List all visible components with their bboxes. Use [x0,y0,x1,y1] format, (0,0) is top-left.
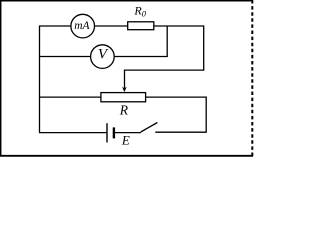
wire: voltmeter to tap [114,56,168,58]
battery long plate [106,123,108,142]
wire: R0 to top-right corner [154,25,204,27]
wire: ammeter to R0 [94,25,127,27]
svg-text:mA: mA [74,20,90,32]
rheostat R body [101,93,146,102]
rheostat slider arrowhead [122,87,127,92]
wire: voltmeter tap vertical (node between R0 and wire) [166,26,168,57]
svg-text:R: R [119,103,129,118]
wire: left bus to rheostat R [39,96,101,98]
wire: left bus to ammeter [39,25,71,27]
wire: rheostat R to right vertical lower [146,96,207,98]
wire: right vertical lower [205,97,207,133]
ammeter mA [71,14,95,38]
wire: slider arrow shaft [124,70,126,89]
wire: right vertical upper [203,25,205,70]
svg-text:E: E [121,133,130,148]
wire: switch to right vertical [155,131,207,133]
frame bottom border [0,155,253,157]
resistor R0 body [128,22,154,30]
battery short plate [113,127,115,138]
wire: left bus to battery [39,132,107,134]
wire: battery to switch pivot [115,132,141,134]
switch blade [141,123,158,133]
frame top border [0,0,253,2]
frame right border (dashed) [251,0,253,157]
wire: left bus to voltmeter [39,56,91,58]
voltmeter V [91,45,115,69]
wire: left bus vertical [39,26,41,133]
frame left border [0,0,2,157]
wire: slider feed horizontal [125,69,205,71]
